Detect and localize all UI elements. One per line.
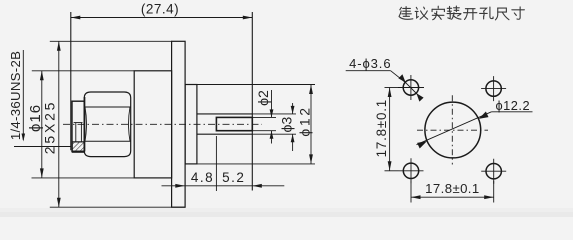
thread hatch band	[72, 142, 84, 151]
insulator tube phi3	[197, 114, 252, 134]
phi12.2 diameter leader	[417, 112, 533, 149]
hex coupling nut	[84, 92, 130, 157]
bottom dim 17.8±0.1	[411, 181, 494, 203]
centerline (axis)	[63, 123, 262, 125]
wire: (27.4) left extension / front face line	[70, 12, 72, 150]
left dim 17.8±0.1	[385, 88, 399, 171]
svg-text:4-ϕ3.6: 4-ϕ3.6	[349, 56, 391, 71]
center contact detail	[72, 123, 84, 142]
svg-text:4.8: 4.8	[191, 170, 214, 185]
title 建议安装开孔尺寸 (vector strokes)	[399, 6, 524, 20]
rear disc phi12	[185, 85, 197, 164]
svg-text:ϕ3: ϕ3	[279, 117, 295, 133]
svg-text:ϕ12.2: ϕ12.2	[496, 98, 531, 113]
hole bottom-right	[481, 159, 506, 184]
hole top-left	[398, 75, 424, 100]
svg-text:ϕ2: ϕ2	[256, 90, 272, 106]
front tube (thread barrel)	[72, 101, 84, 151]
svg-text:5.2: 5.2	[222, 170, 245, 185]
svg-text:ϕ12: ϕ12	[297, 105, 313, 136]
hole top-right	[481, 76, 506, 101]
hole bottom-left	[399, 158, 424, 183]
big hole centerlines	[417, 95, 488, 164]
svg-text:17.8±0.1: 17.8±0.1	[425, 181, 479, 196]
body shoulder phi16	[134, 71, 171, 178]
svg-text:(27.4): (27.4)	[141, 2, 179, 17]
4-phi3.6 leader	[346, 71, 424, 102]
nut face thick line	[84, 97, 86, 152]
flange 25x25	[172, 41, 186, 207]
svg-text:1/4-36UNS-2B: 1/4-36UNS-2B	[8, 51, 23, 140]
wire: (27.4) right extension / rear end line	[251, 12, 253, 191]
big hole phi12.2	[425, 102, 481, 158]
tube bottom thick edge	[72, 151, 85, 153]
svg-text:17.8±0.1: 17.8±0.1	[374, 99, 389, 157]
pin phi2	[216, 117, 252, 130]
